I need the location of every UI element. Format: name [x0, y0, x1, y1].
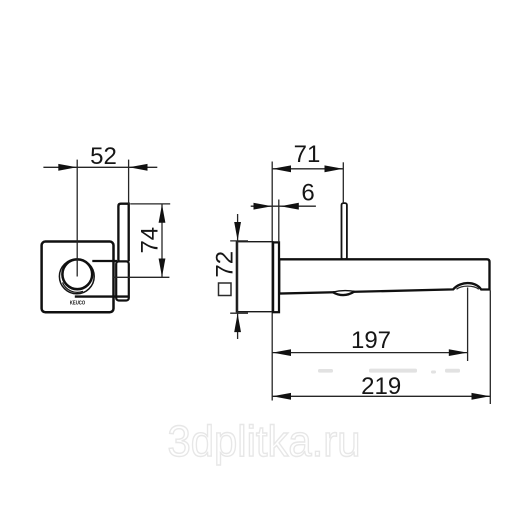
dim 74 top extension line: [130, 203, 170, 205]
dim 74 down arrow: [159, 259, 166, 278]
svg-text:71: 71: [294, 141, 321, 168]
svg-text:74: 74: [137, 227, 164, 254]
dim 71 left arrow: [273, 165, 292, 172]
spout outlet inner arc: [457, 286, 479, 289]
dim 197 left arrow: [273, 349, 292, 356]
lever stick front view: [118, 204, 128, 262]
spout front view body: [116, 261, 129, 300]
dim sq72 top arrow: [234, 222, 241, 241]
dim sq72 top extension: [230, 240, 248, 242]
dim 6 left arrow: [254, 203, 273, 210]
wall plate edge-on: [273, 242, 279, 312]
handle cylinder bottom line: [75, 295, 129, 297]
knob chamfer arc: [63, 283, 84, 293]
svg-text:72: 72: [212, 251, 239, 278]
dim 219 line: [272, 395, 490, 397]
dim sq72 bottom arrow: [234, 314, 241, 333]
dim 6 extension line (plate front): [278, 200, 280, 243]
dim 6 line: [251, 205, 316, 207]
dim 219 right arrow: [472, 393, 491, 400]
handle escutcheon plate: [42, 242, 114, 313]
svg-text:KEUCO: KEUCO: [70, 300, 86, 306]
svg-text:3dplitka.ru: 3dplitka.ru: [168, 417, 361, 466]
dim 74 bottom extension line: [113, 276, 169, 278]
dim 52 extension line center: [76, 160, 78, 277]
dim 71 right arrow: [325, 165, 344, 172]
aerator lens upper edge: [333, 291, 355, 293]
in-wall body: [236, 242, 272, 312]
dim 74 line: [161, 204, 163, 277]
dim sq72 vertical line: [237, 214, 239, 339]
watermark remnant streaks: [318, 369, 460, 374]
dim 52 line: [43, 166, 157, 168]
dim 6 right arrow: [280, 203, 299, 210]
dim 52 extension line right: [128, 160, 130, 204]
svg-text:197: 197: [351, 327, 391, 354]
dim 52 left arrow: [58, 164, 77, 171]
dim 197 right arrow: [449, 349, 468, 356]
dim 197 line: [272, 352, 467, 354]
dim 71 extension line right: [342, 162, 344, 203]
dim 74 up arrow: [159, 204, 166, 223]
wall line: [271, 162, 273, 401]
knob face circle: [62, 259, 92, 289]
aerator lens body: [333, 291, 355, 296]
spout body outline: [279, 259, 489, 293]
svg-text:6: 6: [301, 179, 314, 206]
svg-text:219: 219: [361, 373, 401, 400]
dim 52 right arrow: [129, 164, 148, 171]
dim sq72 bottom extension: [230, 312, 248, 314]
dim 71 line: [272, 168, 343, 170]
aerator lens lower edge: [333, 291, 355, 295]
svg-text:52: 52: [90, 143, 117, 170]
knob outer rim circle: [59, 259, 94, 294]
dim 219 left arrow: [273, 393, 292, 400]
stick (side view): [342, 203, 347, 259]
dim sq72 square symbol: [219, 283, 232, 296]
handle cylinder top line: [92, 260, 117, 262]
dim 219 extension line right: [489, 291, 491, 405]
dim 197 extension line right: [467, 288, 469, 362]
